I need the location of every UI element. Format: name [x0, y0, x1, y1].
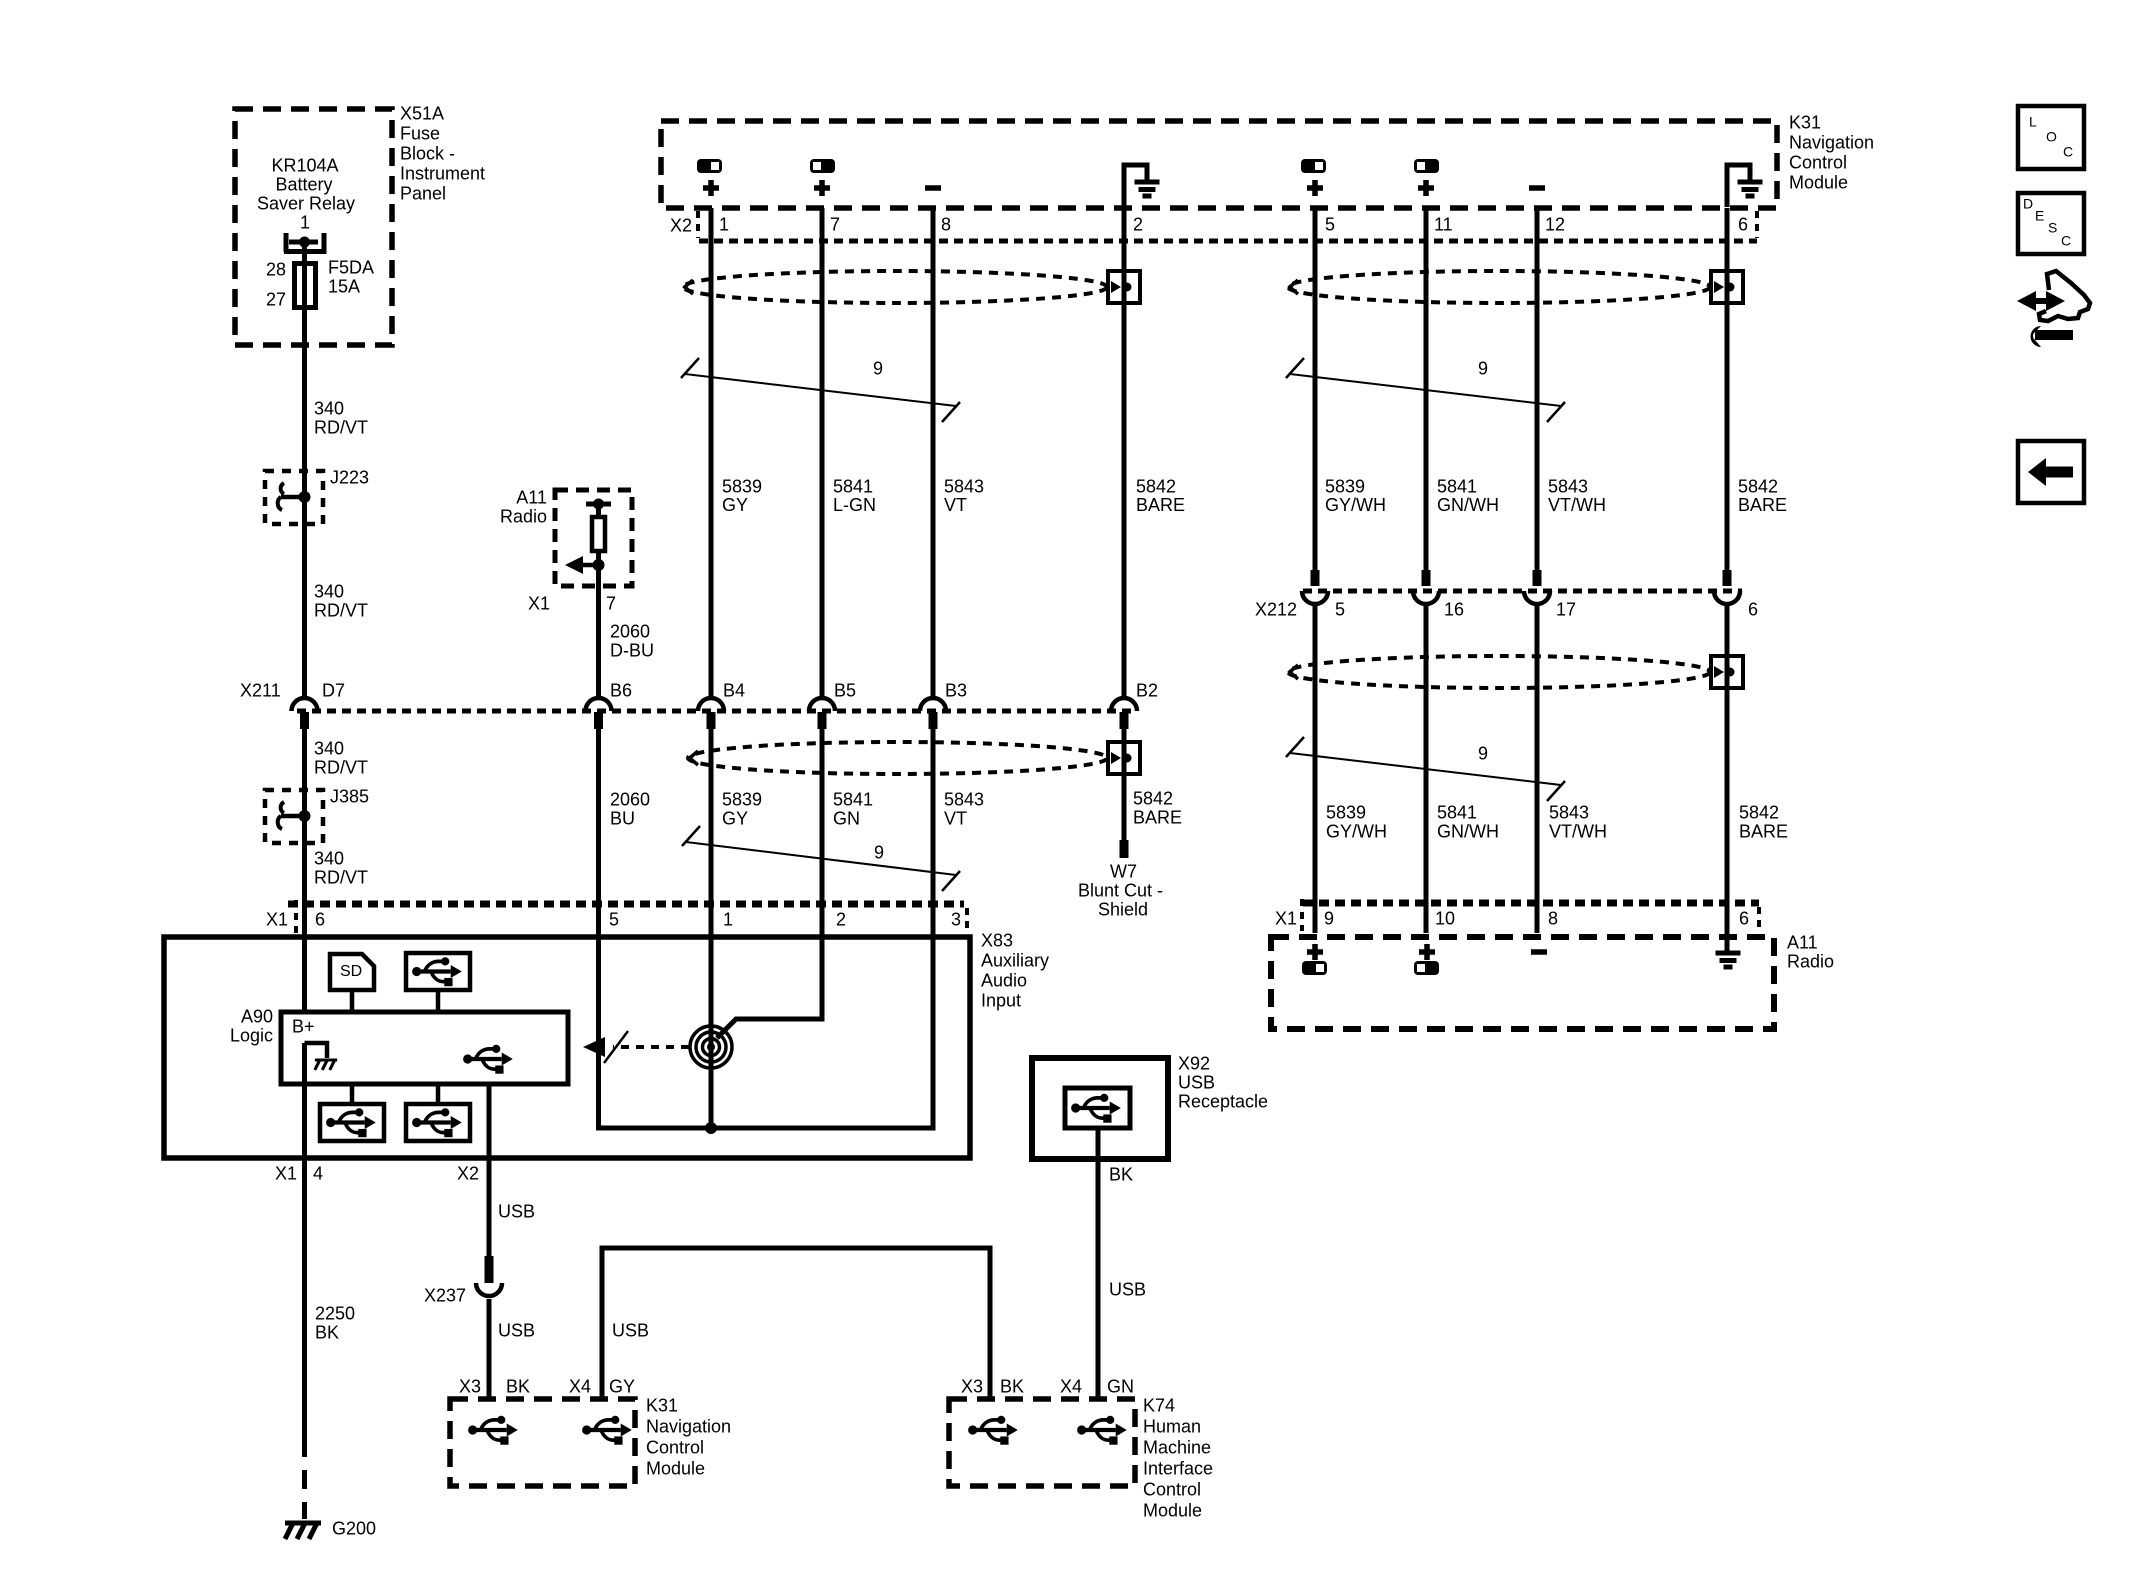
- svg-text:GN: GN: [833, 809, 860, 829]
- svg-text:6: 6: [1739, 909, 1749, 929]
- connector X1 line at X83: [288, 901, 964, 908]
- K31 pin 7 plus: [814, 185, 830, 191]
- A90 internal ground: [305, 1043, 328, 1058]
- svg-text:GN: GN: [1107, 1377, 1134, 1397]
- svg-text:X1: X1: [266, 910, 288, 930]
- svg-text:J385: J385: [330, 787, 369, 807]
- svg-text:B6: B6: [610, 681, 632, 701]
- wire X83 pin 5 to sleeve rail: [599, 937, 934, 1128]
- svg-text:5842: 5842: [1136, 477, 1176, 497]
- svg-text:Control: Control: [1143, 1480, 1201, 1500]
- svg-text:Input: Input: [981, 991, 1021, 1011]
- svg-text:5839: 5839: [722, 477, 762, 497]
- svg-text:9: 9: [1324, 909, 1334, 929]
- svg-text:Blunt Cut -: Blunt Cut -: [1078, 881, 1163, 901]
- svg-text:GN/WH: GN/WH: [1437, 495, 1499, 515]
- back arrow icon box: [2018, 441, 2084, 503]
- svg-text:1: 1: [719, 215, 729, 235]
- radio A11 outline (bottom): [1271, 937, 1774, 1029]
- svg-text:10: 10: [1435, 909, 1455, 929]
- svg-text:X3: X3: [961, 1377, 983, 1397]
- svg-text:9: 9: [874, 843, 884, 863]
- svg-text:GY/WH: GY/WH: [1325, 495, 1386, 515]
- svg-text:RD/VT: RD/VT: [314, 758, 368, 778]
- svg-text:1: 1: [300, 213, 310, 233]
- svg-text:VT/WH: VT/WH: [1548, 495, 1606, 515]
- connector X211 pin B6: [586, 698, 612, 711]
- svg-text:GY: GY: [722, 809, 748, 829]
- svg-text:5842: 5842: [1133, 789, 1173, 809]
- svg-text:W7: W7: [1110, 862, 1137, 882]
- A11 pin 10 plus: [1419, 949, 1435, 955]
- svg-text:RD/VT: RD/VT: [314, 868, 368, 888]
- svg-text:Machine: Machine: [1143, 1438, 1211, 1458]
- K31 pin 5 plus: [1307, 185, 1323, 191]
- cable size 9 marker lower-left: [686, 842, 956, 875]
- aux jack symbol: [707, 1043, 715, 1051]
- svg-text:C: C: [2061, 233, 2071, 249]
- connector X212 pin 5: [1311, 570, 1320, 586]
- wire B+ feed inside A90: [302, 937, 307, 1012]
- svg-text:5841: 5841: [1437, 803, 1477, 823]
- svg-text:Interface: Interface: [1143, 1459, 1213, 1479]
- svg-text:5839: 5839: [1325, 477, 1365, 497]
- K31 internal ground at pin 2: [1124, 165, 1147, 207]
- svg-text:G200: G200: [332, 1519, 376, 1539]
- cable size 9 marker lower-right: [1290, 753, 1561, 785]
- svg-text:Fuse: Fuse: [400, 124, 440, 144]
- svg-text:J223: J223: [330, 468, 369, 488]
- module K31 outline (top): [661, 121, 1777, 208]
- A11 internal ground at pin 6: [1716, 951, 1741, 956]
- wire 2060 D-BU radio to X211: [596, 586, 601, 699]
- svg-text:B2: B2: [1136, 681, 1158, 701]
- module K31 USB symbol X3: [468, 1416, 518, 1445]
- svg-text:12: 12: [1545, 215, 1565, 235]
- connector X212 pin 17: [1533, 570, 1542, 586]
- USB icon top: [406, 953, 470, 990]
- svg-text:Audio: Audio: [981, 971, 1027, 991]
- svg-text:15A: 15A: [328, 277, 360, 297]
- module K74 USB symbol X3: [968, 1416, 1018, 1445]
- svg-text:B+: B+: [292, 1017, 315, 1037]
- blunt cut W7 stub: [1120, 840, 1129, 858]
- radio A11 outline (top): [555, 490, 632, 586]
- svg-text:GY: GY: [609, 1377, 635, 1397]
- svg-text:16: 16: [1444, 600, 1464, 620]
- module K74 USB symbol X4: [1077, 1416, 1127, 1445]
- K31 pin 1 plus: [703, 185, 719, 191]
- svg-text:X4: X4: [569, 1377, 591, 1397]
- repair instructions icon: [2039, 271, 2090, 321]
- svg-text:K31: K31: [646, 1396, 678, 1416]
- svg-text:K74: K74: [1143, 1396, 1175, 1416]
- fuse F5DA 15A: [295, 264, 316, 308]
- svg-text:Receptacle: Receptacle: [1178, 1092, 1268, 1112]
- wire USB K31-X4 to K74-X3 bridge: [602, 1248, 990, 1399]
- svg-text:RD/VT: RD/VT: [314, 418, 368, 438]
- svg-text:A90: A90: [241, 1007, 273, 1027]
- wire 5842 BARE shield drain to W7: [1122, 729, 1127, 841]
- wire 5843 VT X211 to X83: [931, 729, 936, 935]
- svg-text:GN/WH: GN/WH: [1437, 822, 1499, 842]
- connector X1 right tick: [965, 908, 969, 933]
- svg-text:340: 340: [314, 739, 344, 759]
- svg-text:O: O: [2046, 129, 2057, 145]
- USB icon top stem: [436, 990, 441, 1012]
- svg-text:X92: X92: [1178, 1054, 1210, 1074]
- svg-text:A11: A11: [1787, 933, 1818, 953]
- shield termination box upper-right: [1711, 271, 1743, 303]
- wire 2060 BU X211 to X83: [596, 729, 601, 935]
- svg-text:Shield: Shield: [1098, 900, 1148, 920]
- svg-text:GY/WH: GY/WH: [1326, 822, 1387, 842]
- svg-text:5839: 5839: [722, 790, 762, 810]
- fuse block X51A outline: [235, 109, 392, 345]
- svg-text:5842: 5842: [1739, 803, 1779, 823]
- SD card icon: [330, 954, 374, 990]
- svg-text:BARE: BARE: [1738, 495, 1787, 515]
- svg-text:X211: X211: [240, 681, 281, 701]
- svg-text:Battery: Battery: [275, 175, 332, 195]
- wire USB A90-X2 to X237: [487, 1159, 492, 1258]
- svg-text:8: 8: [941, 215, 951, 235]
- svg-text:5839: 5839: [1326, 803, 1366, 823]
- wire 5843 VT pin8 upper: [931, 208, 936, 699]
- svg-text:SD: SD: [340, 963, 362, 980]
- svg-text:5843: 5843: [944, 790, 984, 810]
- connector X1 line at A11: [1303, 900, 1759, 907]
- twisted shield ellipse lower-left: [688, 742, 1107, 774]
- shield termination box lower-left: [1108, 742, 1140, 774]
- svg-text:5841: 5841: [1437, 477, 1477, 497]
- connector X1 left tick: [294, 900, 298, 933]
- connector X211 pin B5: [809, 698, 835, 711]
- module A90 outer box: [164, 937, 970, 1158]
- LOC icon box: [2018, 106, 2084, 169]
- dashed select arrow to A90: [613, 1045, 689, 1049]
- svg-text:C: C: [2063, 144, 2073, 160]
- svg-text:Block -: Block -: [400, 144, 455, 164]
- svg-text:D-BU: D-BU: [610, 641, 654, 661]
- svg-text:RD/VT: RD/VT: [314, 601, 368, 621]
- K31 internal ground at pin 6: [1727, 165, 1750, 207]
- wire 5841 GN/WH pin11 upper: [1424, 208, 1429, 570]
- wire 5843 VT/WH pin17 lower: [1535, 605, 1540, 933]
- relay KR104A contact: [284, 233, 289, 252]
- svg-text:Module: Module: [1789, 173, 1848, 193]
- connector X237: [485, 1256, 494, 1283]
- USB icon bottom-right stem: [436, 1084, 441, 1104]
- svg-text:B3: B3: [945, 681, 967, 701]
- svg-text:27: 27: [266, 290, 286, 310]
- cable size 9 marker upper-right: [1290, 374, 1561, 406]
- svg-text:BK: BK: [506, 1377, 530, 1397]
- wire 5839 GY X211 to X83: [709, 729, 714, 935]
- connector X211 pin D7: [292, 698, 318, 711]
- wire X83 pin 1 through jack: [709, 937, 714, 1128]
- svg-text:3: 3: [951, 910, 961, 930]
- connector X1 ticks at A11: [1300, 899, 1304, 931]
- svg-text:BK: BK: [315, 1323, 339, 1343]
- svg-text:6: 6: [1748, 600, 1758, 620]
- connector X211 pin B3: [920, 698, 946, 711]
- svg-text:5: 5: [609, 910, 619, 930]
- SD icon stem: [350, 990, 355, 1012]
- A11 pin 9 polarity icon: [1302, 961, 1327, 975]
- cable size 9 marker upper-left: [685, 374, 956, 406]
- svg-text:6: 6: [315, 910, 325, 930]
- svg-text:BARE: BARE: [1136, 495, 1185, 515]
- svg-text:X2: X2: [457, 1164, 479, 1184]
- svg-text:USB: USB: [612, 1321, 649, 1341]
- connector X211 pin B2: [1111, 698, 1137, 711]
- svg-text:Control: Control: [646, 1438, 704, 1458]
- svg-text:X2: X2: [670, 216, 692, 236]
- connector X2 tick: [696, 211, 700, 238]
- svg-text:Instrument: Instrument: [400, 164, 485, 184]
- svg-text:D: D: [2023, 196, 2033, 212]
- svg-text:BARE: BARE: [1133, 808, 1182, 828]
- A90 logic box: [281, 1012, 568, 1084]
- wire 5841 L-GN pin7 upper: [820, 208, 825, 699]
- svg-text:5843: 5843: [1549, 803, 1589, 823]
- svg-text:9: 9: [873, 359, 883, 379]
- svg-text:Module: Module: [1143, 1501, 1202, 1521]
- svg-text:Control: Control: [1789, 153, 1847, 173]
- twisted shield ellipse upper-right: [1288, 271, 1710, 303]
- svg-text:X237: X237: [424, 1286, 466, 1306]
- svg-text:1: 1: [723, 910, 733, 930]
- svg-text:8: 8: [1548, 909, 1558, 929]
- A11 pin 9 plus: [1307, 949, 1323, 955]
- svg-text:L: L: [2029, 114, 2037, 130]
- A11 pin 8 minus: [1531, 949, 1547, 955]
- module K31 USB symbol X4: [582, 1416, 632, 1445]
- splice J385: [265, 790, 323, 843]
- svg-text:USB: USB: [498, 1321, 535, 1341]
- svg-text:2250: 2250: [315, 1304, 355, 1324]
- svg-text:Module: Module: [646, 1459, 705, 1479]
- svg-text:340: 340: [314, 849, 344, 869]
- USB icon bottom-left stem: [350, 1084, 355, 1104]
- wire 5839 GY/WH pin5 upper: [1313, 208, 1318, 570]
- svg-text:5843: 5843: [1548, 477, 1588, 497]
- svg-text:BK: BK: [1109, 1165, 1133, 1185]
- wire 5842 BARE shield drain upper-right: [1725, 208, 1730, 570]
- svg-text:6: 6: [1738, 215, 1748, 235]
- svg-text:2: 2: [1133, 215, 1143, 235]
- wire A90 X2 USB inside box: [487, 1084, 492, 1159]
- receptacle X92 box: [1032, 1058, 1168, 1159]
- svg-text:2060: 2060: [610, 790, 650, 810]
- svg-text:USB: USB: [1178, 1073, 1215, 1093]
- K31 pin 8 minus: [925, 185, 941, 191]
- connector X212 pin 16: [1422, 570, 1431, 586]
- svg-text:17: 17: [1556, 600, 1576, 620]
- svg-text:Saver Relay: Saver Relay: [257, 194, 355, 214]
- svg-text:7: 7: [606, 594, 616, 614]
- svg-text:F5DA: F5DA: [328, 258, 374, 278]
- wire 340 RD/VT X211 to J385: [302, 729, 307, 935]
- wire 2250 BK to G200: [302, 1159, 307, 1438]
- svg-text:9: 9: [1478, 744, 1488, 764]
- svg-text:340: 340: [314, 582, 344, 602]
- K31 pin 11 polarity icon: [1414, 159, 1439, 173]
- connector X211 line: [297, 709, 1136, 714]
- svg-text:Logic: Logic: [230, 1026, 273, 1046]
- svg-text:2: 2: [836, 910, 846, 930]
- DESC icon box: [2018, 193, 2084, 254]
- svg-text:340: 340: [314, 399, 344, 419]
- wire 5843 VT/WH pin12 upper: [1535, 208, 1540, 570]
- wire 5839 GY/WH pin5 lower: [1313, 605, 1318, 933]
- svg-text:5841: 5841: [833, 477, 873, 497]
- svg-text:Panel: Panel: [400, 184, 446, 204]
- svg-text:28: 28: [266, 260, 286, 280]
- svg-text:Radio: Radio: [500, 507, 547, 527]
- wire 5841 GN X211 to X83: [820, 729, 825, 935]
- module K74 outline: [949, 1399, 1135, 1486]
- K31 pin 5 polarity icon: [1301, 159, 1326, 173]
- svg-text:Navigation: Navigation: [646, 1417, 731, 1437]
- svg-text:X3: X3: [459, 1377, 481, 1397]
- svg-text:VT/WH: VT/WH: [1549, 822, 1607, 842]
- K31 pin 11 plus: [1418, 185, 1434, 191]
- svg-text:X1: X1: [275, 1164, 297, 1184]
- svg-text:VT: VT: [944, 495, 967, 515]
- svg-text:7: 7: [830, 215, 840, 235]
- svg-text:A11: A11: [516, 488, 547, 508]
- K31 pin 12 minus: [1529, 185, 1545, 191]
- wire 5841 GN/WH pin16 lower: [1424, 605, 1429, 933]
- A11 pin 10 polarity icon: [1414, 961, 1439, 975]
- svg-text:2060: 2060: [610, 622, 650, 642]
- wire X83 pin 2 to jack tip: [717, 937, 822, 1038]
- svg-text:5: 5: [1325, 215, 1335, 235]
- wire 5842 BARE shield drain upper-left: [1122, 208, 1127, 699]
- connector X212 line: [1303, 589, 1742, 594]
- svg-text:X51A: X51A: [400, 104, 444, 124]
- connector X2 line: [699, 239, 1757, 244]
- USB icon bottom-left: [320, 1104, 384, 1141]
- sleeve rail junction dot: [705, 1122, 717, 1134]
- wire 340 RD/VT relay to X211: [302, 242, 307, 699]
- svg-text:5: 5: [1335, 600, 1345, 620]
- svg-text:Navigation: Navigation: [1789, 133, 1874, 153]
- svg-text:GY: GY: [722, 495, 748, 515]
- ground G200: [285, 1523, 321, 1539]
- svg-text:B4: B4: [723, 681, 745, 701]
- splice J223: [265, 471, 323, 524]
- svg-text:B5: B5: [834, 681, 856, 701]
- svg-text:X1: X1: [528, 594, 550, 614]
- svg-text:11: 11: [1434, 215, 1453, 235]
- svg-text:9: 9: [1478, 359, 1488, 379]
- svg-text:K31: K31: [1789, 113, 1821, 133]
- wire 5842 BARE shield drain lower-right: [1725, 605, 1730, 951]
- wire X92 to K74 X4: [1096, 1128, 1101, 1399]
- receptacle X92 USB icon: [1065, 1088, 1130, 1128]
- wire USB X237 to K31 X3: [487, 1299, 492, 1399]
- svg-text:X1: X1: [1275, 909, 1297, 929]
- K31 pin 1 polarity icon: [697, 159, 722, 173]
- connector X211 pin B4: [698, 698, 724, 711]
- svg-text:BU: BU: [610, 809, 635, 829]
- svg-text:USB: USB: [498, 1202, 535, 1222]
- svg-text:5841: 5841: [833, 790, 873, 810]
- connector X212 pin 6: [1723, 570, 1732, 586]
- svg-text:X83: X83: [981, 931, 1013, 951]
- svg-text:L-GN: L-GN: [833, 495, 876, 515]
- radio A11 antenna element: [586, 502, 611, 507]
- svg-text:VT: VT: [944, 809, 967, 829]
- module K31 outline (bottom): [450, 1399, 635, 1486]
- twisted shield ellipse lower-right: [1288, 656, 1710, 688]
- svg-text:D7: D7: [322, 681, 345, 701]
- svg-text:5843: 5843: [944, 477, 984, 497]
- A90 logic USB symbol: [463, 1045, 513, 1074]
- svg-text:E: E: [2035, 208, 2044, 224]
- svg-text:5842: 5842: [1738, 477, 1778, 497]
- svg-text:USB: USB: [1109, 1280, 1146, 1300]
- svg-text:BK: BK: [1000, 1377, 1024, 1397]
- svg-text:X212: X212: [1255, 600, 1297, 620]
- USB icon bottom-right: [406, 1104, 470, 1141]
- shield termination box upper-left: [1108, 271, 1140, 303]
- svg-text:S: S: [2048, 220, 2057, 236]
- svg-text:KR104A: KR104A: [271, 156, 338, 176]
- K31 pin 7 polarity icon: [810, 159, 835, 173]
- connector X2 right tick: [1755, 211, 1759, 238]
- svg-text:Radio: Radio: [1787, 952, 1834, 972]
- svg-text:X4: X4: [1060, 1377, 1082, 1397]
- twisted shield ellipse upper-left: [683, 271, 1107, 303]
- svg-text:Auxiliary: Auxiliary: [981, 951, 1049, 971]
- svg-text:BARE: BARE: [1739, 822, 1788, 842]
- wire 5839 GY pin1 upper: [709, 208, 714, 699]
- shield termination box lower-right: [1711, 656, 1743, 688]
- svg-text:4: 4: [313, 1164, 323, 1184]
- svg-text:Human: Human: [1143, 1417, 1201, 1437]
